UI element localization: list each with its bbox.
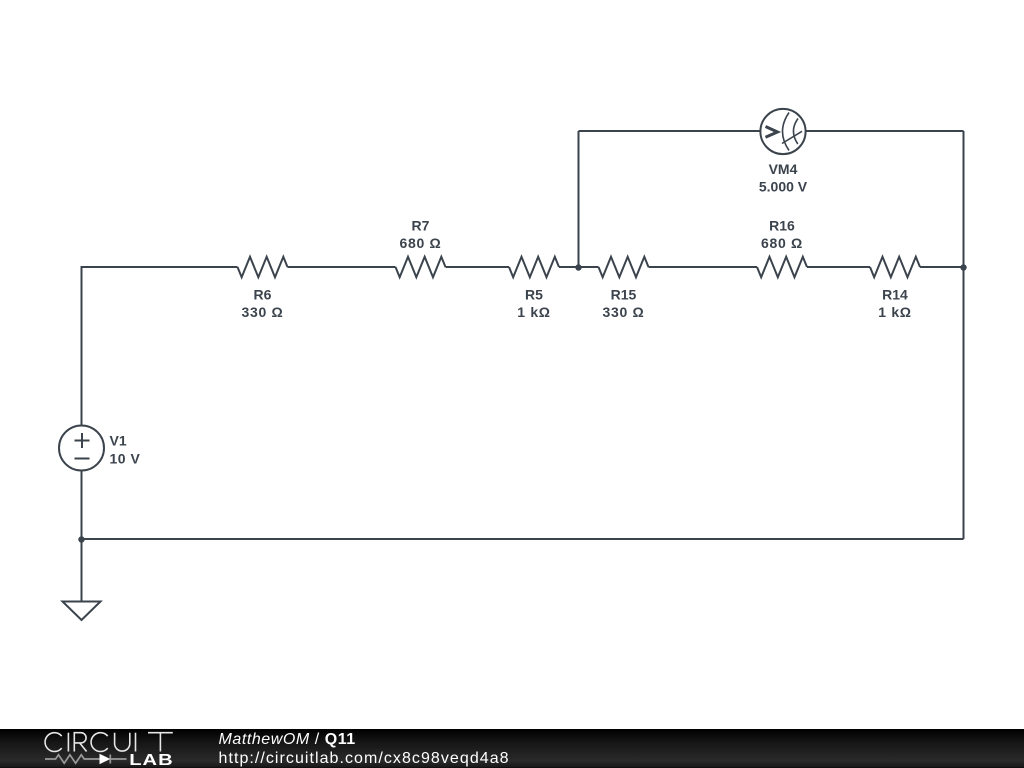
C [45,733,62,752]
resistor R7 [396,218,446,278]
svg-text:1 kΩ: 1 kΩ [517,304,551,320]
svg-text:1 kΩ: 1 kΩ [878,304,912,320]
node junction at voltmeter branch [575,264,581,270]
LAB wordmark [129,751,174,768]
footer url text [219,751,510,767]
resistor R16 [757,218,807,278]
wire between R5 and R15 through node [559,266,599,268]
footer title text [219,732,356,748]
wire node to ground [81,540,83,602]
wire between R16 and R14 [807,266,870,268]
wire left vertical top [81,266,83,426]
svg-text:R6: R6 [254,287,272,303]
wire top horizontal left [579,130,761,132]
resistor-diode glyph [45,755,127,764]
I [135,733,137,752]
voltage source V1 [59,426,140,471]
svg-text:10 V: 10 V [110,451,141,467]
C [91,733,108,752]
wire bottom horizontal [82,538,964,540]
node junction bottom left [78,536,84,542]
wire between R6 and R7 [288,266,396,268]
I [67,733,69,752]
svg-text:R14: R14 [882,287,908,303]
wire R14 to right vertical [920,266,964,268]
T [148,733,173,752]
wire between R15 and R16 [649,266,758,268]
svg-text:R7: R7 [412,218,430,234]
resistor R15 [599,257,649,320]
svg-text:5.000 V: 5.000 V [759,179,808,195]
svg-text:R5: R5 [525,287,543,303]
wire main horizontal left segment [82,266,238,268]
resistor R5 [509,257,559,320]
svg-text:680 Ω: 680 Ω [400,235,442,251]
svg-text:V1: V1 [110,433,127,449]
ground [63,602,101,621]
svg-text:R16: R16 [769,218,795,234]
svg-text:680 Ω: 680 Ω [761,235,803,251]
wire right vertical [963,131,965,539]
svg-text:R15: R15 [611,287,637,303]
footer bar [0,729,1024,768]
R [74,733,86,752]
resistor R14 [870,257,920,320]
wire between R7 and R5 [446,266,510,268]
voltmeter VM4 [759,109,808,195]
svg-text:330 Ω: 330 Ω [603,304,645,320]
U [115,733,130,751]
wire top horizontal right [806,130,964,132]
CircuitLab logo [0,729,220,768]
wire V1 bottom to bottom-left node [81,471,83,541]
svg-text:LAB: LAB [129,751,174,768]
wire branch vertical to voltmeter [578,131,580,268]
svg-text:330 Ω: 330 Ω [242,304,284,320]
resistor R6 [238,257,288,320]
svg-text:VM4: VM4 [769,161,798,177]
node junction at right [960,264,966,270]
